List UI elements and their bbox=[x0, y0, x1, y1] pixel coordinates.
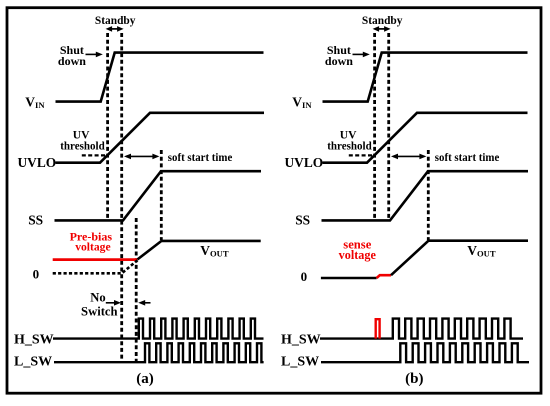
svg-text:(b): (b) bbox=[405, 371, 423, 387]
svg-text:voltage: voltage bbox=[75, 240, 110, 253]
svg-text:H_SW: H_SW bbox=[14, 333, 54, 348]
svg-text:0: 0 bbox=[33, 267, 40, 282]
svg-text:soft start time: soft start time bbox=[168, 151, 233, 164]
svg-text:UVLO: UVLO bbox=[18, 155, 57, 170]
svg-text:down: down bbox=[58, 54, 86, 68]
svg-text:Switch: Switch bbox=[81, 304, 118, 318]
svg-text:down: down bbox=[325, 54, 353, 68]
svg-text:SS: SS bbox=[28, 213, 43, 228]
svg-text:No: No bbox=[90, 290, 105, 304]
svg-text:L_SW: L_SW bbox=[14, 355, 52, 370]
svg-text:soft start time: soft start time bbox=[435, 151, 500, 164]
svg-text:(a): (a) bbox=[136, 371, 154, 387]
svg-text:Standby: Standby bbox=[362, 15, 403, 27]
svg-text:L_SW: L_SW bbox=[281, 355, 319, 370]
svg-text:UVLO: UVLO bbox=[285, 155, 324, 170]
svg-text:SS: SS bbox=[295, 213, 310, 228]
svg-text:H_SW: H_SW bbox=[281, 333, 321, 348]
svg-text:0: 0 bbox=[301, 269, 308, 284]
svg-text:threshold: threshold bbox=[327, 141, 372, 153]
svg-text:voltage: voltage bbox=[339, 248, 377, 262]
svg-text:Standby: Standby bbox=[95, 15, 136, 27]
svg-text:threshold: threshold bbox=[60, 141, 105, 153]
